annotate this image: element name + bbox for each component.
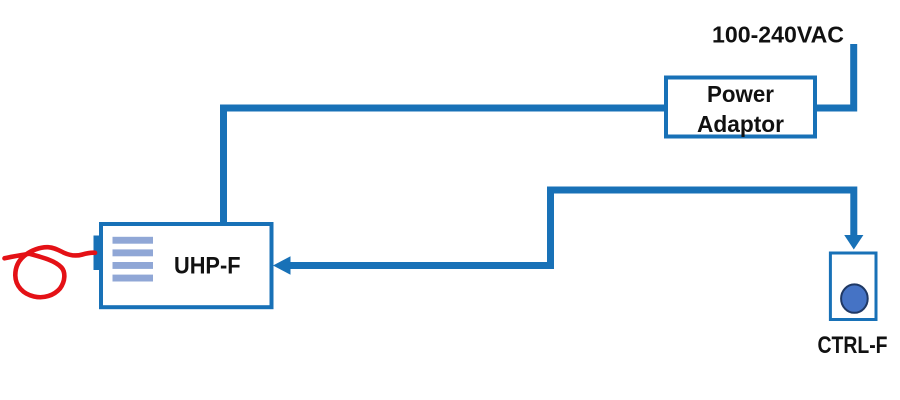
label 100-240VAC <box>712 22 844 48</box>
svg-text:Adaptor: Adaptor <box>697 111 784 137</box>
heat-sink stripe 1 <box>113 237 154 244</box>
arrowhead into UHP-F right side <box>273 256 291 275</box>
UHP-F box <box>101 224 272 307</box>
svg-text:UHP-F: UHP-F <box>174 253 241 280</box>
wire: AC mains down to Power Adaptor right side <box>817 44 854 108</box>
label Power Adaptor <box>697 81 784 137</box>
red fiber cable with loop <box>5 247 96 297</box>
svg-text:Power: Power <box>707 81 774 107</box>
wire: Power Adaptor to UHP-F top <box>224 108 667 222</box>
heat-sink stripe 3 <box>113 262 154 269</box>
CTRL-F box <box>830 253 876 320</box>
fiber connector tab on UHP-F left side <box>94 236 103 271</box>
power adaptor box <box>666 78 815 137</box>
label UHP-F <box>174 253 241 280</box>
heat-sink stripe 2 <box>113 249 154 256</box>
label CTRL-F <box>818 332 888 359</box>
svg-text:CTRL-F: CTRL-F <box>818 332 888 359</box>
arrowhead into CTRL-F top <box>844 235 863 250</box>
indicator button circle <box>841 284 868 312</box>
svg-text:100-240VAC: 100-240VAC <box>712 22 844 48</box>
control wire: CTRL-F to UHP-F <box>290 190 854 266</box>
heat-sink stripe 4 <box>113 275 154 282</box>
